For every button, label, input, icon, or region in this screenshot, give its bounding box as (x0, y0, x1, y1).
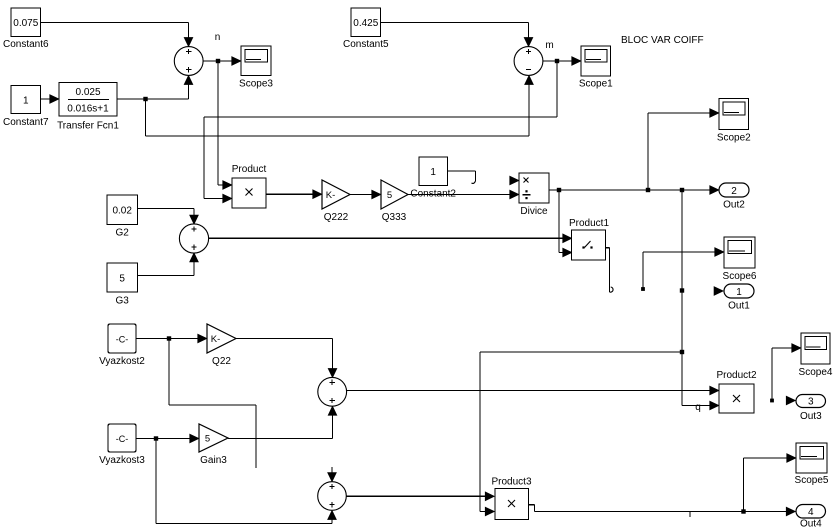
svg-text:Scope6: Scope6 (723, 271, 757, 282)
svg-text:-C-: -C- (116, 335, 129, 345)
svg-text:5: 5 (387, 190, 392, 201)
svg-text:Transfer Fcn1: Transfer Fcn1 (57, 121, 119, 132)
svg-text:Divice: Divice (520, 206, 548, 217)
svg-text:3: 3 (808, 396, 814, 407)
svg-text:4: 4 (808, 507, 814, 518)
svg-text:1: 1 (736, 287, 742, 298)
svg-text:0.016s+1: 0.016s+1 (67, 104, 109, 115)
svg-text:Product2: Product2 (716, 370, 756, 381)
svg-text:q: q (695, 402, 701, 413)
svg-text:0.425: 0.425 (353, 18, 378, 29)
svg-text:1: 1 (430, 167, 436, 178)
svg-text:BLOC VAR COIFF: BLOC VAR COIFF (621, 35, 704, 46)
svg-text:Vyazkost2: Vyazkost2 (99, 356, 145, 367)
svg-text:Scope2: Scope2 (717, 133, 751, 144)
svg-text:Scope3: Scope3 (239, 79, 273, 90)
svg-text:5: 5 (119, 274, 125, 285)
svg-text:G2: G2 (116, 228, 130, 239)
svg-text:Q222: Q222 (324, 212, 349, 223)
svg-text:Gain3: Gain3 (200, 455, 227, 466)
svg-text:Out3: Out3 (800, 411, 822, 422)
svg-text:Product3: Product3 (491, 477, 531, 488)
svg-text:-C-: -C- (116, 434, 129, 444)
svg-text:Scope1: Scope1 (579, 79, 613, 90)
svg-text:Constant7: Constant7 (3, 117, 49, 128)
svg-text:Scope4: Scope4 (799, 367, 833, 378)
svg-text:0.02: 0.02 (112, 206, 132, 217)
svg-text:Out4: Out4 (800, 519, 822, 530)
svg-text:K-: K- (211, 334, 221, 345)
svg-text:Constant6: Constant6 (3, 39, 49, 50)
svg-text:n: n (215, 32, 221, 43)
svg-text:G3: G3 (116, 296, 130, 307)
svg-text:Out1: Out1 (728, 301, 750, 312)
svg-text:2: 2 (731, 186, 737, 197)
svg-text:Constant5: Constant5 (343, 39, 389, 50)
svg-text:Vyazkost3: Vyazkost3 (99, 455, 145, 466)
svg-text:Out2: Out2 (723, 200, 745, 211)
svg-text:Q333: Q333 (382, 212, 407, 223)
svg-text:0.025: 0.025 (75, 87, 100, 98)
svg-text:5: 5 (205, 434, 210, 445)
svg-text:0.075: 0.075 (13, 18, 38, 29)
svg-text:K-: K- (326, 190, 336, 201)
svg-text:m: m (545, 40, 553, 51)
svg-text:Product1: Product1 (569, 218, 609, 229)
svg-text:Scope5: Scope5 (795, 475, 829, 486)
svg-text:Constant2: Constant2 (410, 189, 456, 200)
svg-text:Q22: Q22 (212, 356, 231, 367)
svg-text:Product: Product (232, 164, 267, 175)
svg-text:1: 1 (23, 96, 29, 107)
